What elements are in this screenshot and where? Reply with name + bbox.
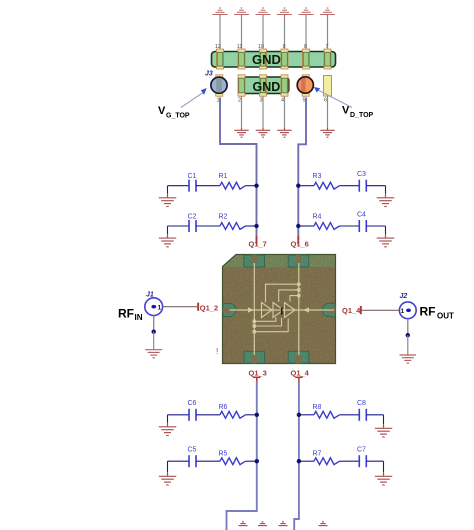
capacitor C4 — [357, 211, 366, 232]
pin pad 5 — [302, 75, 309, 96]
port Q1_3 — [249, 369, 267, 382]
svg-text:3: 3 — [259, 97, 262, 103]
junction R7/rail — [297, 459, 301, 463]
connector J2 — [399, 302, 416, 319]
ground (C8) — [375, 428, 393, 437]
ground (J1) — [145, 350, 162, 358]
wire J2 down — [407, 319, 409, 336]
svg-text:10: 10 — [258, 44, 264, 50]
ground (C1) — [159, 198, 177, 207]
svg-text:R8: R8 — [313, 404, 322, 411]
resistor R3 — [313, 173, 340, 189]
wire pin 11 to ground — [241, 18, 243, 49]
wire C8 to ground riser — [366, 414, 383, 416]
wire R6 to rail — [246, 414, 257, 416]
pin pad 8 — [303, 44, 310, 69]
wire to ground — [167, 186, 169, 194]
MMIC die Q1 — [223, 255, 336, 364]
svg-text:RF: RF — [118, 307, 134, 321]
wire pin 10 to ground — [262, 18, 264, 49]
svg-text:11: 11 — [237, 44, 243, 50]
svg-text:GND: GND — [252, 52, 281, 67]
port Q1_7 — [249, 236, 267, 248]
pin pad 3 — [260, 75, 267, 96]
svg-text:GND: GND — [253, 80, 281, 94]
die trace vertical left — [253, 263, 255, 355]
resistor R2 — [219, 213, 246, 229]
svg-text:8: 8 — [304, 44, 307, 50]
capacitor C7 — [357, 447, 366, 468]
junction R5/rail — [255, 459, 259, 463]
capacitor C2 — [188, 213, 197, 232]
connector J1 — [145, 298, 163, 316]
wire R1 to rail — [246, 185, 257, 187]
ground (top, pin 7) — [320, 8, 335, 15]
die right pad — [322, 303, 335, 316]
wire C3 to ground riser — [366, 185, 385, 187]
svg-text:C6: C6 — [188, 400, 197, 407]
ground (top, pin 9) — [277, 8, 292, 15]
wire rail to R3 — [298, 185, 314, 187]
wire pin 4 to ground — [284, 97, 286, 128]
wire C6 to R6 — [196, 414, 220, 416]
wire C1 to R1 — [196, 185, 220, 187]
pin pad 11 — [237, 44, 245, 69]
wire to ground — [383, 461, 385, 472]
svg-text:R1: R1 — [219, 173, 228, 180]
pin pad 1 — [216, 75, 223, 96]
ground (C4) — [377, 238, 395, 247]
die top pad at x=298.5 — [288, 255, 309, 267]
junction R6/rail — [255, 413, 259, 417]
svg-text:1: 1 — [216, 97, 219, 103]
die top metal band — [223, 255, 335, 267]
capacitor C5 — [188, 447, 197, 468]
die bottom pad at x=254.3 — [244, 351, 265, 363]
wire J1 to port Q1_2 — [163, 306, 198, 308]
wire ground to C6 — [168, 414, 190, 416]
svg-text:1: 1 — [158, 305, 162, 312]
ground stem pin 9 — [284, 15, 286, 18]
svg-text:Q1_3: Q1_3 — [249, 369, 267, 378]
die trace center horizontal — [230, 309, 335, 311]
svg-text:R3: R3 — [313, 173, 322, 180]
arrowhead V_G_TOP — [201, 88, 207, 95]
arrowhead V_D_TOP — [314, 87, 320, 93]
wire to ground — [167, 226, 169, 234]
capacitor C8 — [357, 400, 366, 421]
ground (J2) — [400, 355, 417, 363]
ground tip (bottom connector) x=323 — [319, 522, 328, 526]
resistor R4 — [313, 213, 340, 229]
connector GND bar (pins 7-12) — [212, 52, 336, 68]
svg-text:R6: R6 — [219, 404, 228, 411]
wire rail to R7 — [299, 460, 314, 462]
ground (C5) — [159, 476, 177, 485]
ground (C7) — [375, 476, 393, 485]
ground (top, pin 11) — [234, 8, 249, 15]
svg-text:C2: C2 — [188, 213, 197, 220]
pin pad 10 — [258, 44, 267, 69]
junction J2 ground — [406, 333, 410, 337]
wire C2 to R2 — [196, 225, 220, 227]
pin pad 12 — [215, 44, 224, 69]
die trace vertical right — [298, 263, 300, 355]
resistor R5 — [219, 451, 246, 465]
ground (C6) — [159, 427, 177, 436]
die texture — [223, 255, 336, 364]
wire pin 2 to ground — [241, 97, 243, 128]
ground stem pin 10 — [262, 15, 264, 18]
resistor R7 — [313, 451, 340, 465]
wire to ground — [385, 226, 387, 234]
ground (pin 4) — [277, 128, 292, 138]
svg-text:6: 6 — [324, 97, 327, 103]
die amp triangle 1 — [262, 303, 273, 318]
svg-text:R4: R4 — [313, 213, 322, 220]
svg-text:5: 5 — [302, 97, 305, 103]
ground tip (bottom connector) x=243 — [239, 522, 248, 526]
junction R8/rail — [297, 413, 301, 417]
svg-text:C7: C7 — [357, 447, 366, 454]
svg-text:Q1_2: Q1_2 — [200, 303, 218, 312]
die trace node — [253, 324, 256, 327]
junction R1/rail — [254, 184, 258, 188]
svg-text:!: ! — [216, 347, 218, 356]
wire R8 to C8 — [340, 414, 360, 416]
die bias trace 1 — [254, 318, 275, 322]
svg-text:C3: C3 — [357, 171, 366, 178]
resistor R6 — [219, 404, 246, 418]
leader line V_D_TOP — [318, 90, 353, 108]
svg-text:7: 7 — [325, 44, 328, 50]
wire ground to C2 — [168, 225, 190, 227]
ground (C2) — [159, 238, 177, 247]
pin pad 2 — [238, 75, 245, 96]
connector pin5 (orange circle) — [297, 76, 313, 95]
wire R2 to rail — [246, 225, 257, 227]
wire pin 12 to ground — [219, 18, 221, 49]
svg-text:2: 2 — [238, 97, 241, 103]
svg-text:G_TOP: G_TOP — [166, 112, 190, 119]
svg-text:1: 1 — [401, 308, 405, 315]
svg-text:R2: R2 — [219, 213, 228, 220]
wire net Q1_3 rail — [227, 381, 257, 530]
die feedback trace 2 — [279, 290, 299, 302]
pin pad 4 — [281, 75, 288, 96]
wire net Q1_4 rail — [294, 381, 299, 530]
svg-text:V: V — [158, 105, 166, 117]
net label V_D_TOP — [342, 105, 374, 119]
wire J1 down — [153, 316, 155, 332]
wire pin 6 to ground — [327, 96, 329, 128]
wire to ground — [167, 415, 169, 423]
wire to ground — [385, 186, 387, 194]
die feedback trace 3 — [290, 296, 299, 302]
svg-text:C1: C1 — [188, 173, 197, 180]
die feedback trace 1 — [266, 284, 299, 302]
wire R7 to C7 — [340, 460, 360, 462]
ground tip (bottom connector) x=283 — [279, 522, 288, 526]
die instance mark — [281, 308, 283, 315]
junction J1 ground — [152, 330, 156, 334]
wire C5 to R5 — [196, 460, 220, 462]
die bottom pad at x=298.5 — [288, 351, 309, 363]
wire rail to R4 — [298, 225, 314, 227]
ground (top, pin 10) — [256, 8, 271, 15]
wire net pin5 to Q1_6 rail — [298, 98, 306, 240]
junction R4/rail — [296, 224, 300, 228]
die trace node — [297, 283, 300, 286]
wire rail to R8 — [299, 414, 314, 416]
svg-text:12: 12 — [215, 44, 221, 50]
ground stem pin 11 — [241, 15, 243, 18]
svg-text:RF: RF — [420, 305, 436, 319]
die bias trace 2 — [254, 318, 281, 326]
wire pin 9 to ground — [284, 18, 286, 49]
die trace node — [297, 288, 300, 291]
wire pin 3 to ground — [262, 97, 264, 128]
net label V_G_TOP — [158, 105, 190, 119]
svg-text:IN: IN — [135, 313, 143, 322]
svg-text:R5: R5 — [219, 451, 228, 458]
pin pad 7 — [324, 44, 331, 69]
capacitor C1 — [188, 173, 197, 192]
svg-text:C8: C8 — [357, 400, 366, 407]
port Q1_6 — [291, 236, 309, 248]
capacitor C6 — [188, 400, 197, 421]
svg-text:Q1_4: Q1_4 — [342, 306, 361, 315]
junction R2/rail — [254, 224, 258, 228]
resistor R8 — [313, 404, 340, 418]
junction R3/rail — [296, 184, 300, 188]
die amp triangle 2 — [273, 303, 284, 318]
wire to ground — [383, 415, 385, 425]
die bias trace 3 — [254, 319, 288, 332]
label RF_IN — [118, 307, 143, 322]
wire port Q1_4 to J2 — [362, 309, 399, 311]
wire pin 7 to ground — [327, 18, 329, 49]
ground tip (bottom connector) x=262.5 — [258, 522, 267, 526]
die arrow right — [303, 307, 309, 312]
die trace node — [253, 330, 256, 333]
connector GND bar (pins 2-4) — [239, 77, 289, 94]
wire C4 to ground riser — [366, 225, 385, 227]
svg-text:Q1_7: Q1_7 — [249, 240, 267, 249]
svg-text:4: 4 — [281, 97, 284, 103]
svg-text:R7: R7 — [313, 451, 322, 458]
capacitor C3 — [357, 171, 366, 192]
wire to ground — [407, 335, 409, 355]
port Q1_2 — [197, 303, 218, 313]
resistor R1 — [219, 173, 246, 189]
ground stem pin 7 — [327, 15, 329, 18]
ground stem pin 8 — [305, 15, 307, 18]
leader line V_G_TOP — [181, 93, 203, 108]
connector J3 (blue circle) — [211, 76, 227, 95]
wire R4 to C4 — [340, 225, 360, 227]
wire R3 to C3 — [340, 185, 360, 187]
connector pin6 (yellow pad) — [324, 76, 332, 97]
die trace node — [253, 320, 256, 323]
label RF_OUT — [420, 305, 455, 321]
die trace node — [297, 294, 300, 297]
ground (pin 6) — [320, 128, 335, 138]
port Q1_4 (bottom) — [291, 369, 310, 382]
ground (top, pin 8) — [299, 8, 314, 15]
ground stem pin 12 — [219, 15, 221, 18]
pin pad 9 — [281, 44, 288, 69]
svg-text:OUT: OUT — [437, 311, 454, 320]
wire R5 to rail — [246, 460, 257, 462]
svg-text:C5: C5 — [188, 447, 197, 454]
svg-text:C4: C4 — [357, 211, 366, 218]
ground (top, pin 12) — [213, 8, 228, 15]
ground (pin 3) — [256, 128, 271, 138]
wire to ground — [167, 461, 169, 472]
die top pad at x=254.2 — [244, 255, 265, 267]
wire to ground — [153, 332, 155, 350]
svg-text:Q1_6: Q1_6 — [291, 240, 309, 249]
svg-text:Q1_4: Q1_4 — [291, 369, 310, 378]
die amp triangle 3 — [285, 303, 296, 318]
wire C7 to ground riser — [366, 460, 383, 462]
svg-text:J2: J2 — [400, 293, 408, 300]
svg-text:J3: J3 — [205, 71, 213, 78]
svg-text:9: 9 — [282, 44, 285, 50]
die left pad — [223, 303, 236, 316]
die arrow left — [248, 307, 254, 312]
ground (pin 2) — [234, 128, 249, 138]
ground (C3) — [377, 198, 395, 207]
wire pin 8 to ground — [305, 18, 307, 49]
wire ground to C1 — [168, 185, 190, 187]
port Q1_4 (right) — [342, 306, 362, 315]
svg-text:D_TOP: D_TOP — [350, 112, 374, 119]
wire ground to C5 — [168, 460, 190, 462]
wire net pin1 to Q1_7 rail — [220, 98, 257, 240]
